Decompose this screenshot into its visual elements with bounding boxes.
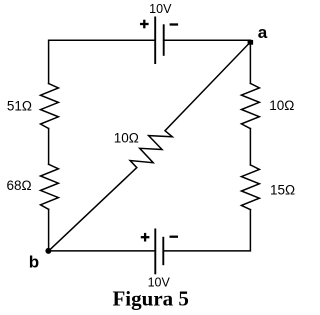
svg-text:68Ω: 68Ω [6, 178, 31, 193]
svg-text:Figura 5: Figura 5 [112, 287, 188, 311]
svg-text:10Ω: 10Ω [114, 131, 139, 146]
svg-text:a: a [258, 23, 268, 42]
svg-text:15Ω: 15Ω [270, 183, 295, 198]
svg-text:10Ω: 10Ω [269, 98, 294, 113]
svg-text:51Ω: 51Ω [7, 98, 32, 113]
svg-text:b: b [29, 253, 39, 272]
svg-text:10V: 10V [149, 2, 172, 16]
